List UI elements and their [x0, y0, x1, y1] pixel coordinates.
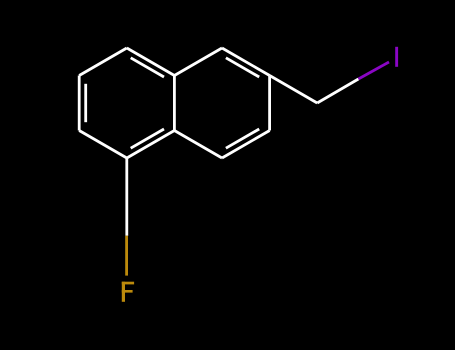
wire C-F bond white part [125, 158, 128, 236]
node F fluorine label [122, 282, 134, 302]
wire right ring lower-left edge [174, 131, 222, 159]
wire left ring upper-right edge [127, 48, 175, 76]
wire left ring left edge [78, 76, 81, 131]
wire C-F bond gold half [125, 236, 128, 276]
wire left ring lower-left edge [79, 131, 127, 159]
wire double bond inner line right ring top-right [226, 58, 259, 77]
wire right ring right edge [268, 76, 271, 131]
wire double bond inner line left ring top-right [131, 58, 164, 77]
wire C-I bond purple half [358, 62, 389, 79]
wire bond ring to CH2 [270, 76, 318, 104]
wire left ring upper-left edge [79, 48, 127, 76]
wire right ring upper-right edge [222, 48, 270, 76]
wire left ring lower-right edge [127, 131, 175, 159]
wire right ring lower-right edge [222, 131, 270, 159]
wire fused central bond [173, 76, 176, 131]
wire right ring upper-left edge [174, 48, 222, 76]
wire double bond inner line left ring bottom [131, 129, 164, 148]
wire double bond inner line right ring bottom-right [226, 129, 259, 148]
wire double bond inner line left ring left [84, 84, 87, 122]
node I iodine label [395, 47, 398, 67]
wire C-I bond white half [317, 79, 358, 103]
